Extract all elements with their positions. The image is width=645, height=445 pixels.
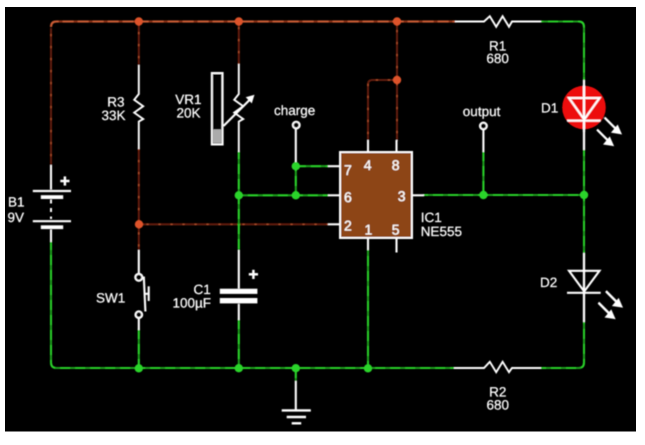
svg-text:680: 680 — [486, 51, 509, 66]
svg-text:NE555: NE555 — [421, 224, 462, 239]
svg-text:D1: D1 — [541, 101, 558, 116]
svg-text:charge: charge — [274, 103, 315, 118]
svg-text:3: 3 — [398, 188, 406, 204]
svg-text:B1: B1 — [8, 195, 25, 210]
svg-text:9V: 9V — [8, 210, 25, 225]
svg-text:2: 2 — [344, 218, 352, 234]
svg-text:100µF: 100µF — [172, 296, 211, 311]
svg-text:20K: 20K — [176, 105, 200, 120]
svg-text:1: 1 — [365, 222, 373, 238]
svg-text:680: 680 — [487, 398, 510, 413]
svg-text:4: 4 — [364, 157, 372, 173]
svg-text:SW1: SW1 — [96, 290, 125, 305]
svg-text:D2: D2 — [540, 275, 557, 290]
svg-text:33K: 33K — [101, 108, 125, 123]
svg-text:6: 6 — [344, 189, 352, 205]
svg-text:8: 8 — [392, 157, 400, 173]
svg-text:5: 5 — [392, 222, 400, 238]
svg-text:output: output — [463, 104, 501, 119]
svg-text:7: 7 — [344, 162, 352, 178]
svg-text:IC1: IC1 — [421, 210, 442, 225]
